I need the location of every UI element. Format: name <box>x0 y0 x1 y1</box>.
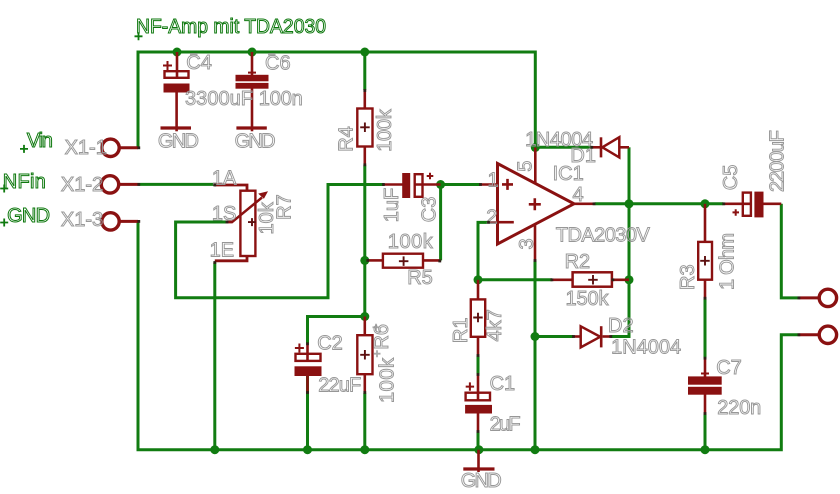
svg-text:X1-3: X1-3 <box>61 209 103 231</box>
svg-text:1S: 1S <box>212 203 236 225</box>
svg-text:C2: C2 <box>317 333 343 355</box>
svg-text:5: 5 <box>515 161 537 172</box>
svg-text:GND: GND <box>7 205 50 227</box>
svg-text:2uF: 2uF <box>490 414 521 436</box>
svg-text:100k: 100k <box>388 231 434 253</box>
svg-text:C1: C1 <box>490 373 516 395</box>
svg-text:1E: 1E <box>210 240 234 262</box>
svg-text:TDA2030V: TDA2030V <box>556 225 651 247</box>
svg-text:R7: R7 <box>274 194 296 220</box>
svg-text:2: 2 <box>486 207 497 229</box>
svg-text:R3: R3 <box>677 264 699 290</box>
svg-text:3300uF: 3300uF <box>185 88 253 110</box>
svg-text:X1-1: X1-1 <box>65 137 107 159</box>
svg-text:R4: R4 <box>336 126 358 152</box>
svg-text:2200uF: 2200uF <box>767 130 789 192</box>
svg-text:100k: 100k <box>374 108 396 152</box>
svg-text:C6: C6 <box>265 53 291 75</box>
svg-text:C4: C4 <box>186 52 212 74</box>
svg-text:D2: D2 <box>608 315 634 337</box>
svg-text:R6: R6 <box>371 324 393 350</box>
svg-text:R5: R5 <box>407 267 433 289</box>
svg-text:4k7: 4k7 <box>484 309 506 341</box>
svg-text:GND: GND <box>461 470 502 492</box>
svg-text:220n: 220n <box>717 397 761 419</box>
svg-text:GND: GND <box>158 130 199 152</box>
svg-text:1 Ohm: 1 Ohm <box>717 233 739 290</box>
svg-text:R1: R1 <box>450 318 472 344</box>
svg-text:100n: 100n <box>259 88 303 110</box>
svg-text:22uF: 22uF <box>318 375 361 397</box>
svg-text:IC1: IC1 <box>553 163 584 185</box>
svg-text:GND: GND <box>235 130 276 152</box>
svg-text:100k: 100k <box>376 357 398 403</box>
svg-text:C3: C3 <box>419 197 441 223</box>
svg-text:R2: R2 <box>565 251 591 273</box>
svg-text:1uF: 1uF <box>381 188 403 222</box>
svg-text:3: 3 <box>516 238 538 249</box>
svg-text:1N4004: 1N4004 <box>611 337 681 359</box>
svg-text:C5: C5 <box>720 165 742 191</box>
svg-text:Vin: Vin <box>27 130 53 152</box>
svg-text:X1-2: X1-2 <box>61 174 103 196</box>
svg-text:NFin: NFin <box>3 171 46 193</box>
svg-text:150k: 150k <box>566 288 610 310</box>
svg-text:1: 1 <box>488 169 499 191</box>
svg-text:C7: C7 <box>716 357 742 379</box>
svg-text:NF-Amp mit TDA2030: NF-Amp mit TDA2030 <box>136 16 326 38</box>
svg-text:4: 4 <box>573 184 584 206</box>
